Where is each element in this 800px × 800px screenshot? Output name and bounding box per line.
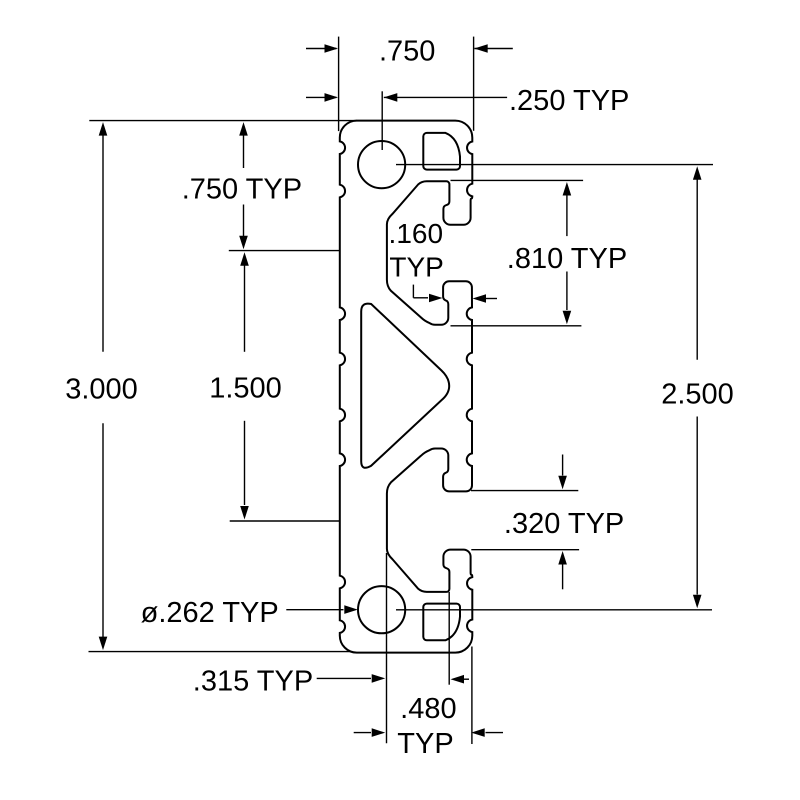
svg-text:.750: .750 — [379, 36, 435, 68]
svg-text:1.500: 1.500 — [209, 373, 282, 405]
svg-text:2.500: 2.500 — [661, 379, 734, 411]
svg-text:.480: .480 — [400, 693, 456, 725]
svg-text:.160: .160 — [389, 218, 444, 249]
svg-text:.320 TYP: .320 TYP — [504, 508, 624, 540]
svg-text:.250 TYP: .250 TYP — [509, 85, 629, 117]
svg-text:.750 TYP: .750 TYP — [182, 173, 302, 205]
svg-text:TYP: TYP — [389, 251, 443, 282]
svg-text:TYP: TYP — [397, 728, 453, 760]
svg-text:.810 TYP: .810 TYP — [507, 243, 627, 275]
svg-text:.315 TYP: .315 TYP — [193, 666, 313, 698]
svg-text:ø.262 TYP: ø.262 TYP — [141, 597, 279, 629]
svg-text:3.000: 3.000 — [65, 373, 138, 405]
